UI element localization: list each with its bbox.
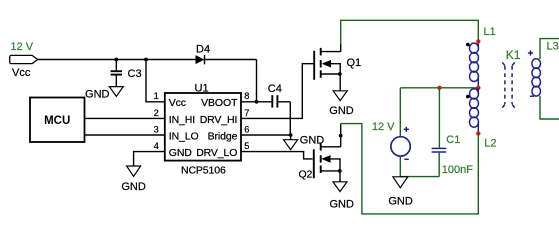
svg-text:GND: GND	[169, 147, 193, 159]
voltage source V1 12V	[391, 137, 410, 156]
svg-text:DRV_HI: DRV_HI	[200, 114, 238, 126]
minus mark	[404, 158, 408, 160]
wire top rail left	[38, 59, 196, 61]
wire Q2 drain to L2 bottom (green loop)	[341, 124, 479, 214]
wire VBOOT drop	[256, 60, 258, 102]
inductor L3	[532, 59, 541, 96]
ground (U1 pin4)	[127, 166, 141, 176]
svg-text:1: 1	[154, 91, 159, 101]
svg-text:Vcc: Vcc	[12, 67, 31, 79]
wire MCU to IN_HI	[85, 117, 165, 119]
junction dot Q2 drain	[339, 134, 343, 138]
svg-text:U1: U1	[195, 83, 209, 95]
wire top rail right	[205, 59, 257, 61]
wire C1 bottom lead	[438, 153, 440, 177]
plus mark L3	[528, 50, 533, 55]
wire pin8 to C4	[241, 101, 272, 103]
junction dot C1 top	[437, 86, 441, 90]
junction dot pin1 tap	[144, 58, 148, 62]
svg-text:7: 7	[244, 108, 249, 118]
svg-text:Vcc: Vcc	[169, 97, 186, 109]
svg-text:L2: L2	[484, 137, 496, 149]
wire C1 top lead	[438, 88, 440, 148]
wire MCU to IN_LO	[85, 134, 165, 136]
ground (Q2)	[333, 182, 347, 192]
svg-text:IN_HI: IN_HI	[169, 114, 195, 126]
node Vcc input tag	[10, 55, 38, 63]
svg-text:6: 6	[244, 124, 249, 134]
wire pin5 to Q2 gate	[241, 152, 313, 159]
svg-text:3: 3	[154, 124, 159, 134]
ground (source)	[393, 177, 408, 188]
wire C1 bottom rail	[400, 176, 439, 178]
wire Bridge ground stub	[290, 135, 292, 140]
wire mid rail (center tap)	[400, 87, 478, 89]
ground (C3)	[109, 87, 123, 97]
svg-text:8: 8	[244, 91, 249, 101]
wire Q2 source to ground	[339, 171, 341, 182]
svg-text:IN_LO: IN_LO	[169, 131, 199, 143]
svg-text:GND: GND	[121, 181, 146, 193]
svg-text:12 V: 12 V	[11, 41, 34, 53]
junction dot C3 tap	[114, 58, 118, 62]
wire Q2 drain lead	[340, 124, 342, 147]
svg-text:GND: GND	[388, 196, 413, 208]
svg-text:D4: D4	[196, 44, 210, 56]
capacitor C4	[271, 95, 273, 107]
IC U1 NCP5106 driver	[165, 93, 241, 161]
capacitor C1	[432, 148, 447, 152]
svg-text:2: 2	[154, 108, 159, 118]
node L1 top	[476, 39, 480, 43]
node L2 bottom	[476, 131, 480, 135]
junction dot pin8	[255, 100, 259, 104]
svg-text:VBOOT: VBOOT	[201, 97, 238, 109]
svg-text:GND: GND	[85, 89, 110, 101]
svg-text:12 V: 12 V	[372, 121, 395, 133]
ground (Bridge)	[284, 140, 298, 150]
svg-text:C1: C1	[446, 134, 460, 146]
svg-text:Q2: Q2	[299, 169, 313, 181]
MCU block	[30, 98, 85, 143]
ground (Q1)	[333, 91, 347, 101]
wire pin4 to ground	[134, 152, 165, 166]
wire C3 top lead	[115, 60, 117, 71]
wire pin6 Bridge	[241, 134, 291, 136]
wire C3 bottom lead	[115, 75, 117, 86]
phase dot L1	[466, 43, 470, 47]
diode D4	[196, 55, 205, 64]
svg-text:5: 5	[244, 141, 249, 151]
svg-text:K1: K1	[506, 48, 521, 62]
svg-text:C3: C3	[128, 68, 142, 80]
phase dot L2	[466, 95, 470, 99]
svg-text:DRV_LO: DRV_LO	[196, 147, 237, 159]
svg-text:Q1: Q1	[347, 57, 362, 69]
junction dot center tap	[476, 86, 480, 90]
svg-text:L1: L1	[484, 26, 496, 38]
junction dot Q1 source	[338, 72, 342, 76]
svg-text:L3: L3	[547, 41, 559, 53]
wire L3 top	[540, 39, 559, 59]
svg-text:MCU: MCU	[44, 115, 70, 127]
wire source minus lead	[399, 156, 401, 177]
svg-text:Bridge: Bridge	[208, 131, 238, 143]
wire Q1 source to ground	[339, 74, 341, 91]
wire Q1 drain lead	[340, 44, 342, 52]
wire C4 to Bridge	[289, 102, 291, 135]
svg-text:C4: C4	[268, 83, 282, 95]
svg-text:GND: GND	[329, 199, 354, 211]
wire pin1 feed	[146, 60, 165, 102]
wire C4 right	[278, 101, 291, 103]
wire pin7 to Q1 gate	[241, 64, 313, 119]
capacitor C3	[111, 70, 122, 72]
transistor Q1	[314, 48, 341, 80]
wire L3 bottom	[540, 96, 559, 119]
transistor Q2	[314, 143, 341, 178]
plus mark	[404, 127, 409, 132]
svg-text:100nF: 100nF	[442, 164, 473, 176]
junction dot pin6	[289, 133, 293, 137]
inductor L2	[470, 88, 479, 134]
svg-text:NCP5106: NCP5106	[181, 164, 226, 176]
wire source plus lead	[399, 88, 401, 137]
junction dot Q2 source	[338, 169, 342, 173]
svg-text:4: 4	[154, 141, 159, 151]
coupling K1	[502, 62, 514, 107]
wire Q1 drain to L1 (green net)	[341, 20, 479, 44]
minus mark L3	[530, 95, 534, 97]
svg-text:GND: GND	[329, 105, 354, 117]
inductor L1	[470, 43, 479, 88]
